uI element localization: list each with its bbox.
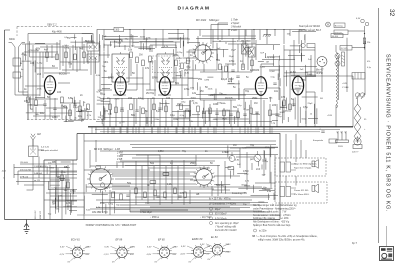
wire (250, 100, 252, 127)
svg-text:5nF: 5nF (79, 48, 83, 50)
box bass (334, 23, 345, 28)
resistor (112, 192, 115, 198)
svg-text:FM: FM (96, 168, 100, 171)
capacitor (236, 76, 239, 77)
resistor (250, 108, 253, 114)
wire (230, 147, 275, 149)
wire (246, 46, 252, 48)
wire (251, 55, 253, 72)
resistor (115, 107, 118, 113)
capacitor trimmer (65, 52, 68, 58)
wire (33, 115, 60, 117)
wire dashed screen right (102, 120, 104, 127)
wire (65, 175, 67, 200)
wire (50, 179, 70, 181)
wire (94, 58, 96, 74)
wire (256, 44, 280, 46)
svg-text:220/110V: 220/110V (35, 210, 37, 219)
wire (259, 190, 275, 192)
resistor (219, 64, 222, 70)
resistor (184, 192, 187, 198)
wire (274, 155, 276, 200)
wire (151, 127, 153, 134)
wire (104, 117, 240, 119)
wire (49, 165, 51, 220)
socket EF 89 (104, 238, 136, 263)
wire (264, 188, 270, 190)
resistor (27, 97, 30, 103)
wire (149, 45, 151, 52)
svg-text:GEN C.2: GEN C.2 (47, 23, 57, 26)
wire (74, 100, 76, 120)
svg-text:0,1μ: 0,1μ (261, 78, 266, 80)
svg-text:8,2k: 8,2k (156, 110, 161, 113)
svg-text:målg k motst. 30kW 32kc fЕ/50m: målg k motst. 30kW 32kc fЕ/50m, pa over … (258, 239, 305, 242)
junction (129, 29, 130, 30)
wire (346, 38, 348, 92)
wire (27, 34, 29, 120)
svg-text:V CAE: V CAE (342, 86, 349, 89)
wire (116, 161, 118, 168)
wire (112, 188, 214, 190)
svg-text:i “Norsk” stilling målt: i “Norsk” stilling målt (215, 226, 236, 229)
wire (210, 94, 246, 96)
wire (348, 30, 365, 32)
wire (274, 30, 276, 37)
wire (57, 168, 59, 207)
wire (158, 94, 171, 96)
wire (281, 106, 287, 108)
svg-text:5Ω: 5Ω (320, 98, 323, 100)
wire (253, 30, 255, 45)
wire (237, 44, 239, 72)
wire (218, 23, 228, 40)
svg-text:DIAGRAM: DIAGRAM (178, 6, 211, 12)
wire (190, 106, 192, 111)
wire (225, 42, 227, 44)
wire (175, 67, 177, 85)
wire (211, 94, 227, 96)
wire (262, 65, 317, 67)
wire (59, 178, 65, 180)
wire (99, 111, 101, 116)
resistor (130, 104, 133, 110)
resistor (187, 58, 190, 64)
resistor R40 (363, 38, 366, 44)
wire (102, 77, 112, 79)
wire (119, 35, 121, 47)
svg-text:470: 470 (24, 100, 29, 103)
resistor (136, 57, 139, 63)
svg-text:6,3V: 6,3V (105, 247, 110, 249)
wire (54, 198, 56, 214)
capacitor C30 electrolytic (242, 30, 256, 58)
wire (246, 152, 248, 190)
wire (54, 98, 56, 120)
wire (130, 211, 270, 213)
svg-text:EABC80: EABC80 (250, 69, 260, 72)
wire (196, 94, 258, 96)
wire (76, 110, 92, 112)
svg-text:Ant.spole m/sokkel: Ant.spole m/sokkel (41, 149, 58, 152)
wire (22, 60, 32, 62)
junction (299, 126, 300, 127)
wire (130, 210, 262, 212)
wire (46, 107, 68, 109)
wire (273, 54, 275, 66)
junction (199, 126, 200, 127)
wire (83, 44, 85, 64)
svg-text:0,5M: 0,5M (80, 119, 85, 121)
wire (70, 201, 72, 213)
wire (115, 178, 193, 180)
svg-text:470k: 470k (229, 60, 235, 63)
wire (25, 44, 27, 60)
wire (292, 30, 316, 32)
wire (146, 117, 148, 124)
wire (184, 72, 186, 77)
wire (287, 117, 289, 122)
resistor (142, 60, 145, 66)
socket ECH 81 (59, 238, 91, 263)
wire (121, 98, 123, 127)
resistor (197, 106, 200, 112)
capacitor trimmer (74, 54, 77, 60)
wire (29, 96, 31, 108)
socket EL 84 (199, 236, 231, 261)
wire (276, 104, 278, 127)
wire (146, 89, 156, 91)
wire (32, 61, 34, 66)
wire (168, 37, 184, 39)
wire (153, 166, 155, 200)
wire (135, 196, 270, 198)
svg-text:2 Sport: 2 Sport (230, 21, 240, 25)
wire (145, 202, 250, 204)
resistor (251, 60, 254, 66)
wire (258, 201, 264, 203)
wire (103, 52, 105, 100)
wire (66, 182, 68, 187)
wire (65, 106, 67, 122)
wire (190, 100, 192, 116)
wire (182, 41, 184, 57)
wire (187, 65, 189, 96)
svg-text:to 220v: to 220v (259, 230, 267, 233)
wire (285, 134, 287, 162)
wire (99, 41, 101, 48)
svg-text:2nF: 2nF (308, 59, 312, 61)
wire (87, 111, 89, 120)
svg-text:-1,2V: -1,2V (59, 254, 65, 256)
wire (269, 127, 271, 134)
wire (298, 45, 300, 53)
wire (213, 127, 215, 134)
wire (176, 127, 178, 134)
svg-text:4 FB jord: 4 FB jord (20, 176, 28, 178)
capacitor (158, 108, 161, 109)
svg-text:10n: 10n (40, 112, 45, 115)
wire top bus main (97, 30, 305, 46)
wire (250, 127, 252, 134)
wire (188, 127, 190, 134)
wire (203, 64, 205, 72)
wire (112, 185, 130, 187)
wire (132, 127, 134, 134)
wire (58, 82, 70, 84)
tube V4 EABC80 (255, 77, 266, 96)
wire (103, 127, 105, 134)
svg-text:40+40μ 350V: 40+40μ 350V (237, 41, 251, 43)
svg-text:70p: 70p (182, 150, 187, 153)
wire (153, 98, 155, 127)
wire (136, 99, 138, 111)
wire (183, 34, 185, 46)
capacitor (156, 196, 159, 197)
wire (313, 104, 315, 124)
svg-text:2nF: 2nF (103, 36, 107, 38)
wire (161, 46, 177, 48)
wire (36, 67, 58, 69)
wire (5, 29, 11, 31)
wire (83, 134, 85, 220)
svg-text:470: 470 (180, 192, 185, 195)
transformer spk2 (280, 187, 285, 197)
wire (148, 167, 210, 169)
wire (192, 114, 200, 116)
capacitor (53, 108, 56, 109)
capacitor (135, 110, 138, 111)
tube V1 ECC85 (44, 76, 55, 95)
wire (62, 45, 64, 66)
wire (265, 158, 267, 170)
capacitor (120, 108, 123, 109)
junction (143, 29, 144, 30)
wire (44, 72, 70, 74)
wire (100, 202, 268, 204)
wire (72, 45, 74, 70)
resistor (154, 190, 157, 196)
wire (286, 75, 300, 77)
wire (197, 112, 199, 127)
wire (212, 40, 236, 42)
border rule (378, 8, 380, 243)
wire (55, 165, 57, 177)
wire (253, 185, 255, 193)
wire (189, 110, 191, 127)
junction (159, 126, 160, 127)
wire (48, 189, 77, 191)
wire (91, 35, 93, 40)
wire (51, 45, 53, 58)
wire (231, 127, 233, 134)
wire (69, 48, 71, 68)
wire (118, 161, 196, 163)
svg-text:1M: 1M (254, 102, 257, 105)
wire (71, 37, 77, 39)
wire (48, 181, 50, 189)
wire (177, 110, 179, 127)
wire (207, 127, 209, 134)
resistor (61, 175, 64, 181)
lamp P4 (355, 93, 359, 97)
wire (135, 127, 137, 134)
screen dashed ratio det (153, 56, 180, 73)
wire (69, 104, 71, 120)
svg-text:5nF: 5nF (96, 91, 100, 93)
wire (298, 30, 300, 45)
svg-text:32: 32 (388, 9, 395, 17)
box switch S2 (189, 50, 217, 70)
svg-text:MV 4322 Stillinger:: MV 4322 Stillinger: (196, 18, 220, 22)
wire (283, 45, 285, 120)
potentiometer VR2 (254, 155, 261, 162)
wire (212, 30, 214, 49)
wire (244, 127, 246, 134)
svg-text:5nF: 5nF (260, 53, 264, 55)
junction (319, 126, 320, 127)
wire (90, 183, 196, 185)
wire (150, 44, 176, 46)
wire (18, 170, 77, 172)
svg-text:470Ω 25μF: 470Ω 25μF (140, 211, 153, 214)
wire (177, 30, 179, 41)
svg-text:1 MW-AB-KW: 1 MW-AB-KW (34, 165, 47, 168)
svg-text:0,1μ: 0,1μ (262, 160, 267, 162)
wire (295, 134, 297, 162)
wire (68, 119, 84, 121)
wire (175, 42, 177, 47)
svg-text:4700: 4700 (70, 190, 76, 193)
wire (214, 184, 230, 186)
fuse (329, 139, 337, 143)
svg-text:4 Ant.: 4 Ant. (231, 28, 238, 32)
wire (364, 26, 366, 50)
wire (129, 30, 131, 49)
wire (72, 98, 74, 103)
wire (205, 44, 207, 60)
wire (93, 45, 95, 120)
wire (20, 163, 77, 165)
capacitor (215, 113, 218, 114)
wire (102, 35, 104, 40)
wire (42, 52, 44, 78)
wire (177, 166, 179, 200)
wire (305, 71, 322, 73)
wire (204, 49, 228, 51)
wire (187, 30, 189, 45)
wire (100, 150, 240, 152)
svg-text:25μF: 25μF (61, 105, 67, 107)
wire (211, 25, 228, 45)
wire (96, 165, 220, 167)
wire (187, 42, 200, 44)
resistor (237, 112, 240, 118)
wire (314, 48, 316, 77)
svg-text:Kp.T: Kp.T (352, 243, 357, 245)
wire (55, 188, 57, 204)
speaker field coil (317, 57, 327, 67)
tube V3 EF80 (159, 77, 170, 96)
svg-text:25μF: 25μF (231, 50, 237, 52)
svg-text:300Ω: 300Ω (307, 74, 313, 76)
svg-text:2,2M: 2,2M (173, 119, 178, 121)
junction (364, 33, 365, 34)
wire (221, 30, 223, 41)
svg-text:6,3V: 6,3V (356, 18, 361, 20)
svg-text:0,5M: 0,5M (270, 71, 275, 73)
svg-text:220 V~: 220 V~ (352, 152, 360, 154)
svg-text:230V: 230V (338, 146, 343, 148)
svg-text:85V: 85V (86, 254, 90, 256)
wire (142, 67, 144, 100)
wire (138, 47, 155, 49)
wire (239, 127, 241, 134)
wire (50, 112, 72, 114)
svg-text:2M: 2M (184, 69, 187, 72)
wire (122, 162, 124, 168)
svg-text:40μ 4400: 40μ 4400 (52, 31, 62, 33)
svg-text:2nF: 2nF (300, 69, 304, 71)
svg-text:ECH 81: ECH 81 (71, 238, 80, 241)
wire (65, 199, 77, 201)
wire (291, 88, 301, 90)
svg-text:EF 89: EF 89 (116, 238, 123, 241)
wire (140, 42, 142, 50)
wire (175, 127, 177, 134)
wire (13, 164, 15, 178)
resistor (228, 167, 234, 170)
wire (133, 41, 139, 43)
chassis earth (263, 30, 271, 37)
speaker LS1 (312, 160, 318, 169)
wire (252, 113, 261, 115)
wire (216, 54, 218, 60)
svg-text:125p: 125p (108, 204, 114, 206)
wire (84, 192, 246, 194)
svg-text:0,1μ: 0,1μ (367, 67, 371, 69)
wire (138, 127, 140, 134)
svg-text:60-100: 60-100 (332, 36, 339, 38)
wire (65, 45, 67, 72)
wire (172, 110, 190, 112)
wire (197, 82, 199, 90)
wire (126, 89, 137, 91)
wire (227, 64, 229, 78)
wire (90, 35, 92, 43)
wire (200, 99, 236, 101)
wire (150, 110, 152, 124)
svg-text:MB: MB (52, 161, 56, 164)
wire (145, 39, 147, 50)
wire (73, 189, 75, 194)
svg-text:1M: 1M (139, 54, 142, 57)
wire (109, 41, 111, 46)
svg-text:-5,8V: -5,8V (199, 251, 205, 253)
wire (79, 100, 81, 120)
wire (200, 71, 252, 73)
svg-text:2 B.Oslo KB: 2 B.Oslo KB (20, 169, 32, 171)
note block (252, 204, 357, 245)
wire (100, 54, 110, 56)
wire (229, 83, 235, 85)
wire (172, 77, 193, 79)
junction (274, 29, 275, 30)
svg-text:Kondensatorer i mikrofarad :: Kondensatorer i mikrofarad : 2,5V/m (253, 214, 291, 217)
wire (102, 191, 104, 213)
wire (230, 77, 232, 82)
svg-text:0,25μ: 0,25μ (33, 50, 39, 52)
